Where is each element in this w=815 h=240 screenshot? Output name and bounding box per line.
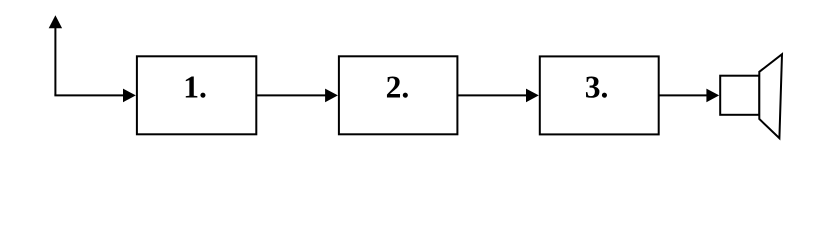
arrowhead into speaker [706, 89, 719, 103]
block 1 [137, 56, 256, 134]
svg-text:2.: 2. [386, 70, 410, 105]
svg-text:3.: 3. [585, 70, 609, 105]
arrowhead into block 2 [325, 89, 338, 103]
speaker driver box [720, 76, 759, 115]
wire antenna to block 1 [54, 94, 124, 96]
block 3 [540, 56, 659, 134]
block 2 [339, 56, 458, 134]
svg-text:1.: 1. [183, 70, 207, 105]
arrowhead into block 3 [526, 89, 539, 103]
arrowhead into block 1 [123, 89, 136, 103]
wire block 1 to block 2 [256, 94, 326, 96]
speaker horn [759, 54, 782, 138]
wire block 3 to speaker [659, 94, 708, 96]
wire block 2 to block 3 [457, 94, 527, 96]
antenna (up arrow) [49, 15, 62, 95]
